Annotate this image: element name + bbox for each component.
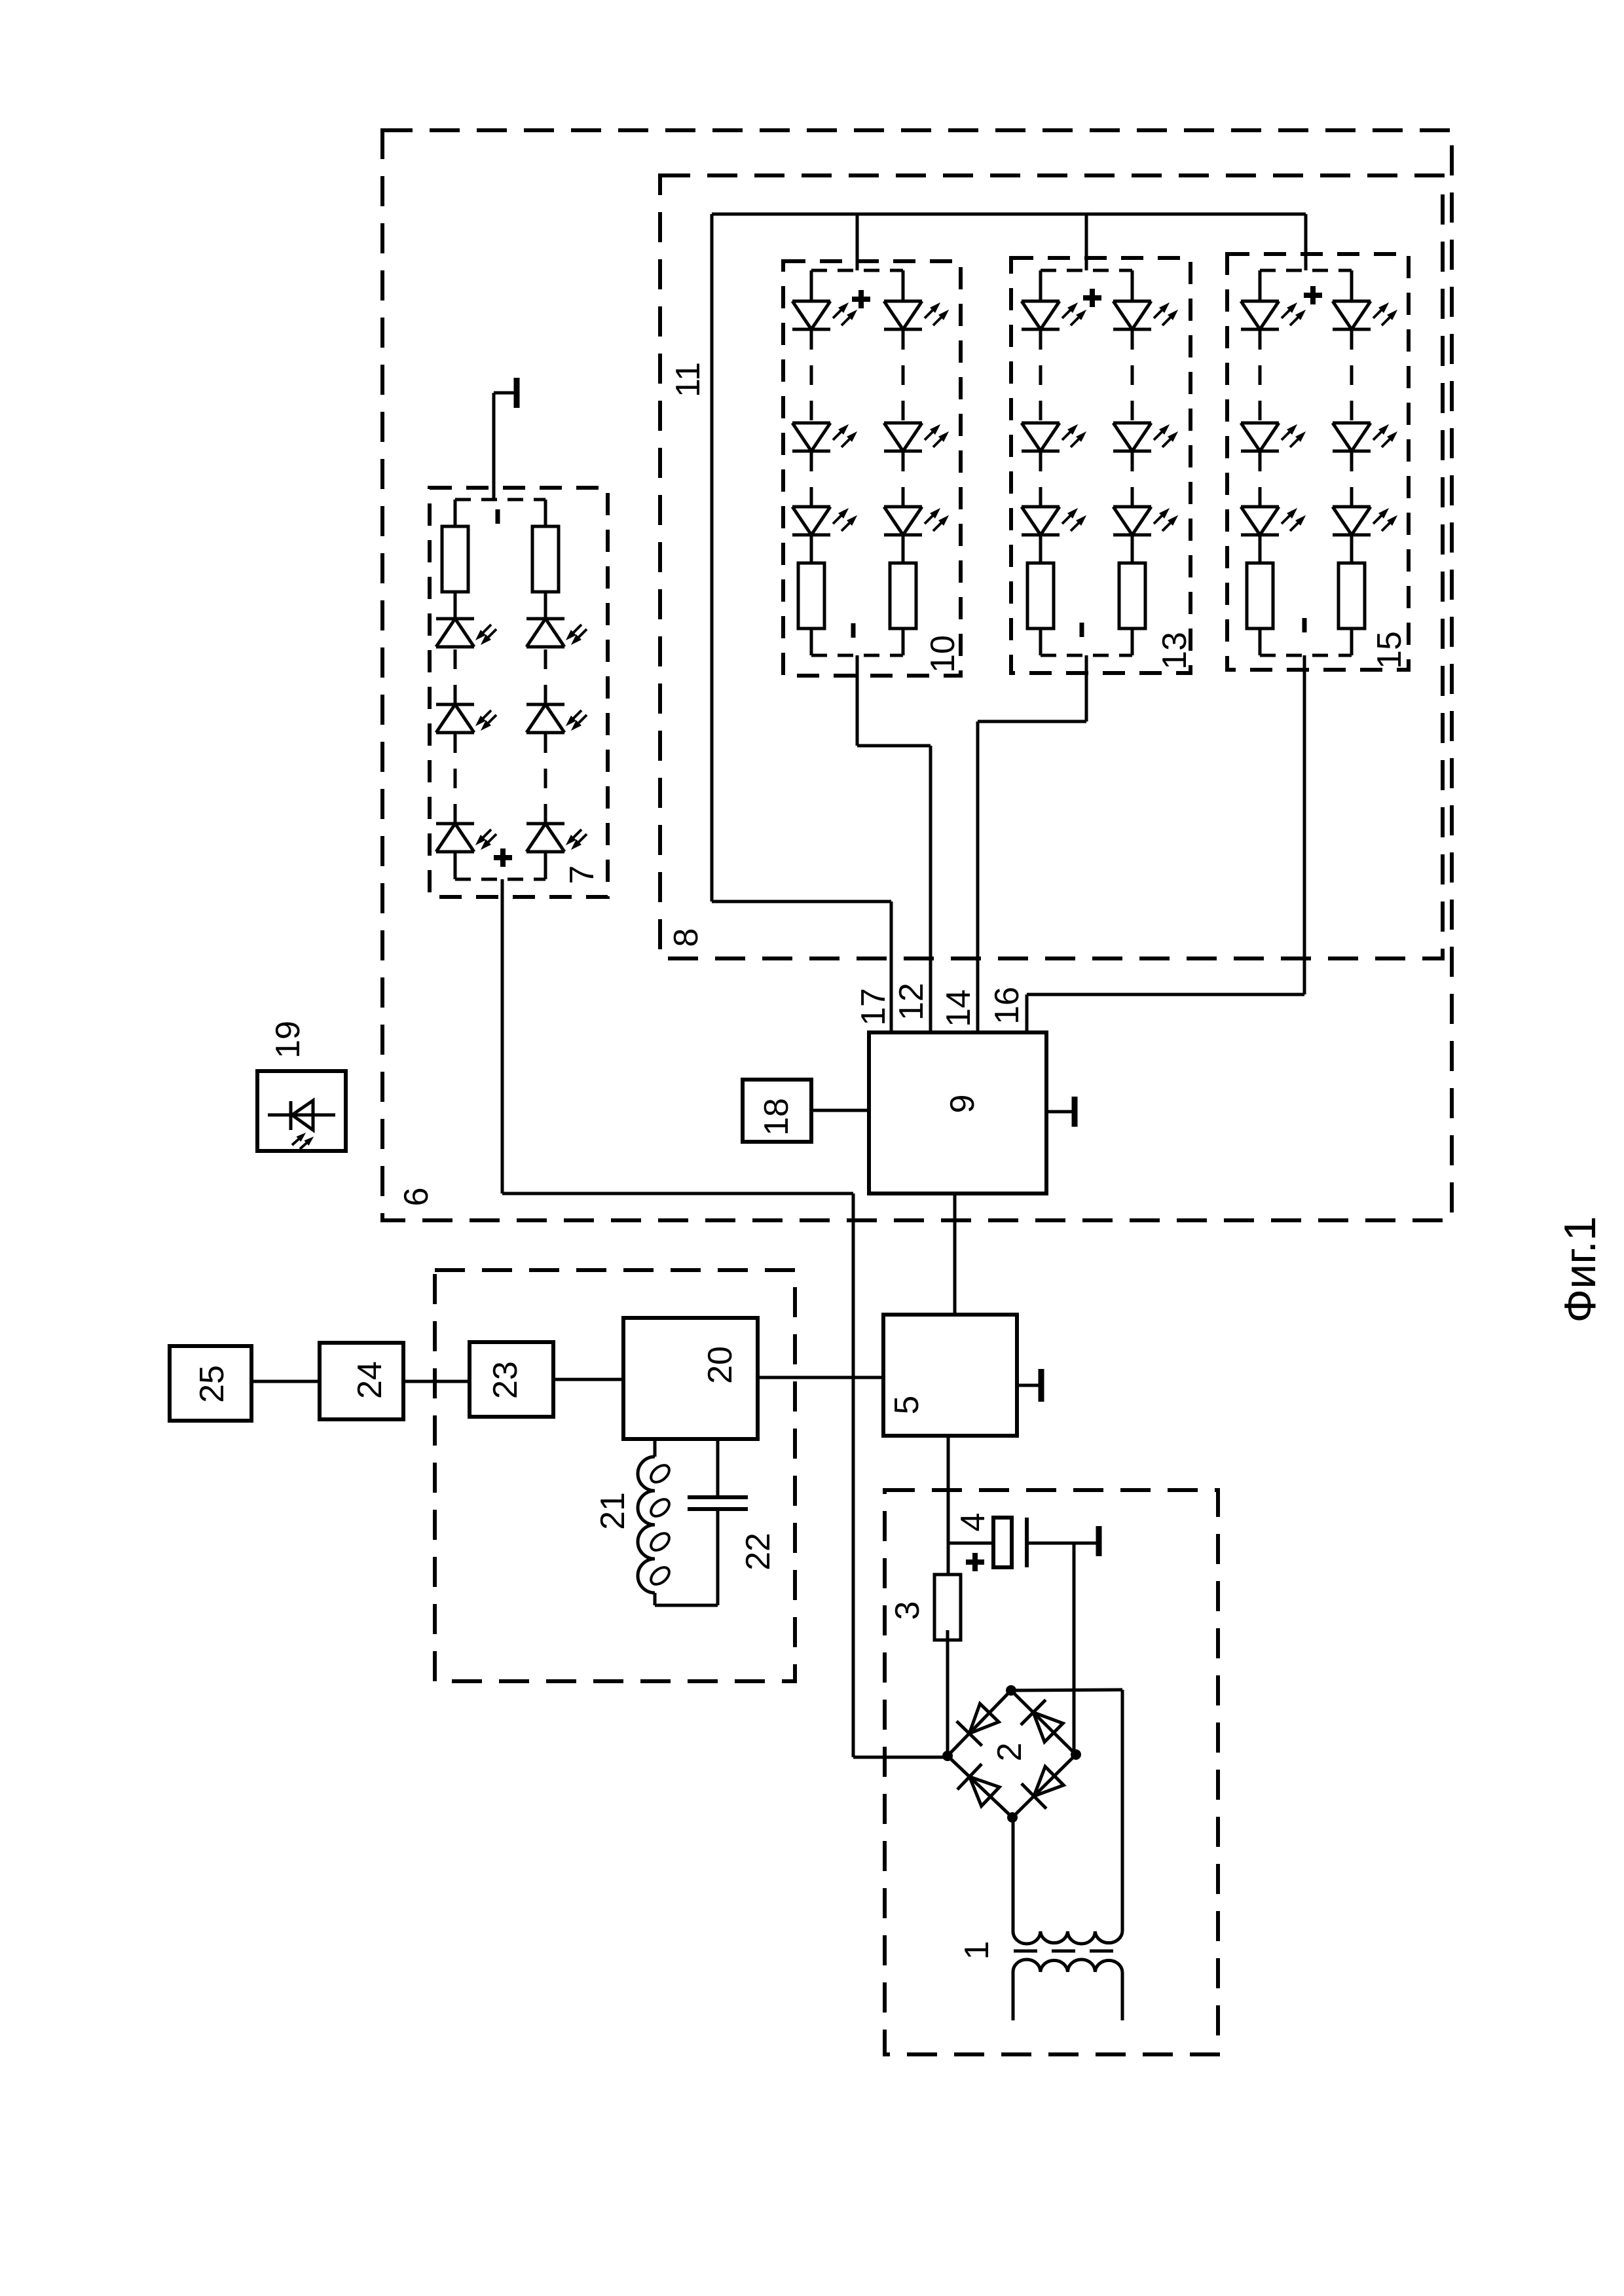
svg-text:10: 10	[924, 635, 962, 673]
svg-text:7: 7	[563, 866, 601, 884]
svg-text:22: 22	[739, 1533, 777, 1571]
svg-text:11: 11	[669, 362, 707, 397]
svg-text:8: 8	[667, 928, 705, 947]
svg-text:13: 13	[1156, 632, 1194, 670]
svg-text:17: 17	[855, 988, 893, 1026]
svg-text:15: 15	[1371, 631, 1409, 669]
svg-text:4: 4	[954, 1513, 992, 1532]
svg-text:19: 19	[269, 1021, 307, 1059]
svg-text:14: 14	[940, 989, 978, 1027]
svg-text:6: 6	[397, 1188, 435, 1207]
svg-text:2: 2	[991, 1743, 1029, 1762]
svg-text:9: 9	[944, 1095, 982, 1114]
svg-text:Фиг.1: Фиг.1	[1555, 1216, 1605, 1323]
svg-text:12: 12	[893, 983, 931, 1021]
svg-text:3: 3	[889, 1601, 927, 1620]
svg-text:5: 5	[888, 1396, 926, 1415]
svg-text:1: 1	[958, 1941, 996, 1960]
svg-text:20: 20	[701, 1346, 739, 1384]
svg-text:16: 16	[988, 987, 1026, 1025]
svg-text:21: 21	[594, 1492, 632, 1530]
svg-text:24: 24	[351, 1361, 389, 1399]
svg-text:25: 25	[193, 1365, 231, 1403]
svg-text:18: 18	[758, 1098, 796, 1136]
svg-text:23: 23	[487, 1361, 525, 1399]
